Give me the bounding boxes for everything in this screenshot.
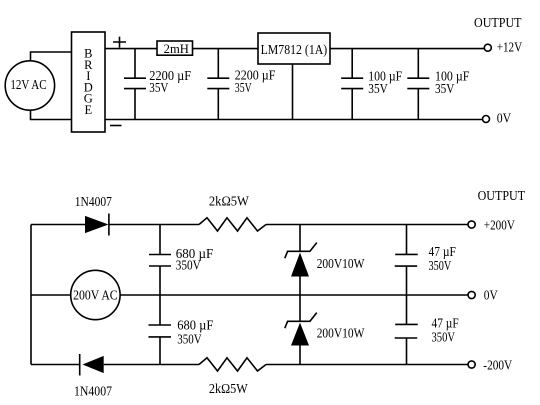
capacitor C4 100uF 35V (407, 49, 470, 120)
wire top rail regulator to +12V terminal (330, 48, 484, 50)
terminal +12V (484, 40, 522, 55)
capacitor C8 47uF 350V (395, 295, 459, 365)
svg-text:35V: 35V (235, 80, 252, 95)
wire -200V rail left segment (31, 364, 80, 366)
voltage regulator U1 LM7812 (258, 33, 330, 64)
terminal 0V (top circuit) (483, 111, 512, 126)
svg-text:47 µF: 47 µF (432, 316, 460, 331)
wire -200V rail resistor to terminal (266, 364, 468, 366)
svg-text:680 µF: 680 µF (177, 318, 214, 333)
svg-text:350V: 350V (176, 257, 201, 272)
capacitor C2 2200uF 35V (207, 49, 276, 120)
capacitor C6 47uF 350V (395, 225, 457, 296)
bridge rectifier BRIDGE (72, 32, 106, 132)
capacitor C7 680uF 350V (149, 295, 214, 365)
svg-text:12V AC: 12V AC (10, 77, 46, 92)
wire top rail inductor to regulator (193, 48, 259, 50)
svg-text:350V: 350V (432, 330, 456, 345)
svg-text:0V: 0V (497, 111, 512, 126)
svg-text:200V10W: 200V10W (317, 256, 365, 271)
label OUTPUT (top circuit) (474, 15, 522, 30)
svg-text:350V: 350V (429, 258, 452, 273)
wire mid rail source left to vertical bus (31, 294, 71, 296)
svg-text:OUTPUT: OUTPUT (478, 188, 526, 203)
terminal 0V (bottom circuit) (468, 288, 498, 303)
capacitor C1 2200uF 35V (124, 49, 192, 120)
svg-text:0V: 0V (484, 288, 498, 303)
wire bottom rail (0V) (105, 119, 483, 121)
label OUTPUT (bottom circuit) (478, 188, 526, 203)
svg-text:OUTPUT: OUTPUT (474, 15, 522, 30)
svg-text:2kΩ5W: 2kΩ5W (209, 193, 249, 208)
svg-text:35V: 35V (149, 80, 168, 95)
wire +200V rail diode to resistor (109, 224, 199, 226)
wire 0V rail source to terminal (120, 294, 468, 296)
wire +200V rail resistor to terminal (266, 224, 468, 226)
capacitor C5 680uF 350V (149, 225, 214, 296)
svg-text:35V: 35V (435, 81, 455, 96)
svg-text:E: E (84, 103, 92, 117)
svg-text:+12V: +12V (497, 40, 523, 55)
diode D2 1N4007 (74, 354, 112, 398)
AC source V1 12V AC (5, 61, 54, 110)
svg-text:1N4007: 1N4007 (74, 383, 112, 398)
plus polarity mark (113, 37, 126, 48)
wire left vertical bus (30, 225, 32, 365)
svg-text:350V: 350V (177, 332, 202, 347)
diode D1 1N4007 (75, 194, 112, 235)
svg-text:200V10W: 200V10W (317, 326, 365, 341)
svg-text:47 µF: 47 µF (429, 244, 457, 259)
wire +200V rail left segment (31, 224, 85, 226)
wire source bottom to bridge input (31, 110, 72, 120)
wire top rail bridge to inductor (105, 48, 157, 50)
wire -200V rail diode to resistor (104, 364, 199, 366)
resistor R1 2k ohm 5W (199, 193, 266, 231)
capacitor C3 100uF 35V (341, 49, 402, 120)
terminal +200V (468, 218, 515, 233)
svg-text:+200V: +200V (484, 218, 515, 233)
wire regulator ground pin (292, 64, 294, 120)
minus polarity mark (110, 125, 122, 127)
svg-text:LM7812 (1A): LM7812 (1A) (261, 42, 328, 57)
AC source V2 200V AC (71, 270, 120, 319)
svg-text:2kΩ5W: 2kΩ5W (209, 381, 248, 396)
svg-text:-200V: -200V (483, 358, 512, 373)
wire source top to bridge input (31, 52, 72, 61)
svg-text:200V AC: 200V AC (73, 287, 118, 302)
svg-text:1N4007: 1N4007 (75, 194, 112, 209)
resistor R2 2k ohm 5W (199, 358, 266, 396)
terminal -200V (468, 358, 512, 373)
inductor L1 2mH (157, 41, 193, 56)
svg-text:35V: 35V (368, 81, 388, 96)
zener diode Z1 200V10W (285, 225, 365, 296)
zener diode Z2 200V10W (285, 295, 365, 365)
svg-text:2mH: 2mH (164, 42, 189, 56)
